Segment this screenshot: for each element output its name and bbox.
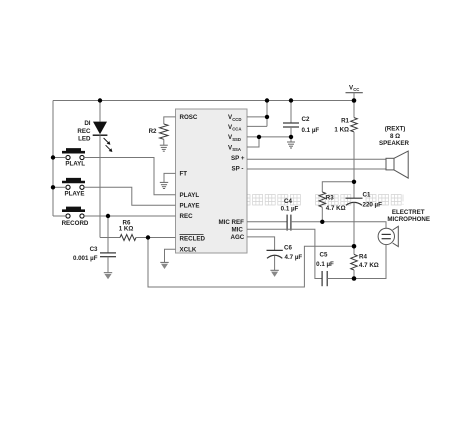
capacitor C2	[283, 101, 299, 142]
svg-text:8 Ω: 8 Ω	[390, 133, 400, 140]
svg-text:REC: REC	[180, 213, 194, 220]
svg-text:RECLED: RECLED	[180, 235, 206, 242]
button RECORD	[62, 207, 85, 218]
label ELECTRET MICROPHONE	[387, 209, 430, 223]
capacitor C4	[287, 215, 291, 231]
svg-text:0.1 µF: 0.1 µF	[281, 206, 299, 213]
junction MIC REF / R3	[320, 220, 324, 224]
speaker	[386, 151, 408, 178]
svg-text:MICROPHONE: MICROPHONE	[387, 216, 430, 223]
svg-text:SPEAKER: SPEAKER	[379, 140, 409, 147]
ground below C3	[104, 273, 112, 280]
svg-text:(REXT): (REXT)	[385, 126, 406, 133]
resistor R3	[319, 192, 326, 222]
svg-text:ROSC: ROSC	[180, 114, 198, 121]
wire C5 to mic bottom	[327, 245, 386, 279]
wire RECORD to REC pin	[84, 215, 175, 217]
svg-text:0.001 µF: 0.001 µF	[73, 255, 98, 262]
capacitor C3	[100, 216, 116, 272]
wire R2 to ground	[163, 139, 165, 145]
svg-text:220 µF: 220 µF	[363, 201, 383, 208]
svg-text:C3: C3	[90, 246, 98, 253]
pin VCCA	[228, 124, 242, 132]
ground below C6	[270, 270, 278, 277]
wire ROSC to R2	[164, 117, 176, 124]
wire SP-	[247, 168, 386, 170]
svg-text:SSD: SSD	[232, 137, 241, 142]
svg-text:1 KΩ: 1 KΩ	[119, 226, 134, 233]
junction rail / PLAYL	[51, 155, 55, 159]
label R4 4.7 KΩ	[359, 254, 379, 270]
ground below R2	[160, 145, 168, 151]
wire LED cathode down	[99, 135, 101, 237]
label R1 1 KΩ	[334, 117, 349, 133]
wire VSSA	[247, 137, 259, 147]
wire PLAYL to chip	[84, 158, 175, 195]
svg-text:PLAYL: PLAYL	[180, 192, 200, 199]
svg-text:LED: LED	[78, 135, 91, 142]
svg-text:RECORD: RECORD	[62, 220, 89, 227]
capacitor C1	[346, 182, 363, 247]
svg-text:C2: C2	[302, 116, 310, 123]
ground below FT	[160, 182, 168, 188]
svg-text:CC: CC	[353, 87, 359, 92]
label C6 4.7 µF	[284, 245, 302, 261]
svg-text:R2: R2	[149, 128, 157, 135]
wire top Vcc rail	[53, 100, 354, 102]
pin VCCD	[228, 114, 242, 122]
resistor R1	[351, 101, 358, 182]
junction RECLED / R6	[146, 235, 150, 239]
pin VSSD	[228, 134, 241, 142]
resistor R2	[160, 124, 168, 139]
wire R3 top link	[322, 182, 354, 192]
LED D1	[93, 122, 108, 136]
junction Vcc symbol / R1	[352, 98, 357, 103]
svg-text:MIC: MIC	[232, 227, 244, 234]
svg-text:XCLK: XCLK	[180, 247, 197, 254]
svg-text:AGC: AGC	[231, 234, 245, 241]
svg-text:C4: C4	[284, 198, 292, 205]
svg-text:PLAYE: PLAYE	[64, 190, 84, 197]
electret microphone	[378, 226, 398, 246]
wire left rail	[52, 101, 54, 217]
svg-text:C6: C6	[284, 245, 292, 252]
label (REXT) 8 Ω SPEAKER	[379, 126, 409, 147]
svg-text:R1: R1	[341, 117, 349, 124]
button PLAYL	[62, 148, 85, 159]
svg-text:REC: REC	[77, 128, 91, 135]
wire MIC REF to C4	[247, 221, 287, 223]
button PLAYE	[62, 178, 85, 190]
svg-text:1 KΩ: 1 KΩ	[334, 127, 349, 134]
wire LED anode drop	[99, 101, 101, 122]
wire MIC to C5	[247, 229, 322, 278]
svg-text:C5: C5	[320, 252, 328, 259]
label C1 220 µF	[363, 191, 383, 208]
label R6 1 KΩ	[119, 219, 134, 232]
wire Vcc drop to VCCA	[266, 101, 268, 127]
junction C1 / R4 / AGC net	[352, 244, 357, 249]
svg-text:FT: FT	[180, 171, 188, 178]
watermark	[240, 195, 403, 206]
svg-text:4.7 µF: 4.7 µF	[285, 254, 303, 261]
wire AGC to C6	[247, 237, 275, 250]
label C4 0.1 µF	[281, 198, 299, 213]
wire R6 to RECLED pin	[136, 237, 176, 239]
svg-text:R4: R4	[359, 254, 367, 261]
wire VSSD	[247, 136, 291, 138]
svg-text:DI: DI	[84, 120, 90, 127]
label C3 0.001 µF	[73, 246, 98, 262]
wire RECLED node down and across to AGC node	[148, 238, 354, 288]
junction LED anode / Vcc rail	[98, 98, 102, 102]
svg-text:MIC REF: MIC REF	[219, 219, 245, 226]
LED light arrows	[104, 138, 113, 152]
ground below C2	[287, 142, 295, 148]
capacitor C6	[267, 250, 283, 270]
junction R3 / C1	[352, 180, 356, 184]
pin RECLED	[180, 234, 206, 242]
junction VSSD / C2 ground	[289, 135, 293, 139]
label C5 0.1 µF	[316, 252, 334, 268]
wire to R6	[100, 237, 120, 239]
ground below XCLK	[160, 262, 168, 269]
svg-text:0.1 µF: 0.1 µF	[302, 127, 320, 134]
resistor R6	[120, 235, 136, 241]
junction rail / PLAYE	[51, 185, 55, 189]
wire XCLK to ground	[165, 249, 176, 262]
pin VSSA	[228, 144, 241, 152]
svg-text:4.7 KΩ: 4.7 KΩ	[359, 262, 379, 269]
junction REC / C3	[106, 214, 110, 218]
svg-text:0.1 µF: 0.1 µF	[316, 261, 334, 268]
capacitor C5	[322, 271, 327, 286]
resistor R4	[351, 246, 358, 278]
svg-text:PLAYL: PLAYL	[65, 161, 85, 168]
wire rail to PLAYE	[53, 186, 66, 188]
svg-text:SP -: SP -	[232, 165, 244, 172]
svg-text:C1: C1	[363, 191, 371, 198]
wire SP+	[247, 158, 386, 160]
wire PLAYE to chip	[84, 187, 175, 205]
junction C2 / rail	[289, 98, 293, 102]
svg-text:CCD: CCD	[232, 117, 241, 122]
junction VCCD	[265, 115, 269, 119]
svg-text:SP +: SP +	[231, 155, 245, 162]
junction VCC drop / rail	[265, 98, 269, 102]
svg-text:R3: R3	[326, 195, 334, 202]
junction VSSD / VSSA	[257, 135, 261, 139]
svg-text:SSA: SSA	[232, 147, 241, 152]
wire VCCA	[247, 125, 267, 127]
svg-text:CCA: CCA	[232, 127, 241, 132]
wire rail to RECORD	[53, 215, 66, 217]
label D1 REC LED	[77, 120, 91, 142]
wire FT to ground	[164, 173, 176, 182]
wire C4 to mic top	[291, 222, 386, 228]
svg-text:PLAYE: PLAYE	[180, 203, 200, 210]
chip U1 body	[176, 109, 248, 253]
wire rail to PLAYL	[53, 157, 66, 159]
svg-text:4.7 KΩ: 4.7 KΩ	[326, 205, 346, 212]
Vcc symbol	[346, 84, 363, 100]
label R3 4.7 KΩ	[326, 195, 346, 212]
label C2 0.1 µF	[302, 116, 320, 134]
junction R4 / C5 / mic	[352, 276, 357, 281]
wire VCCD	[247, 116, 267, 118]
